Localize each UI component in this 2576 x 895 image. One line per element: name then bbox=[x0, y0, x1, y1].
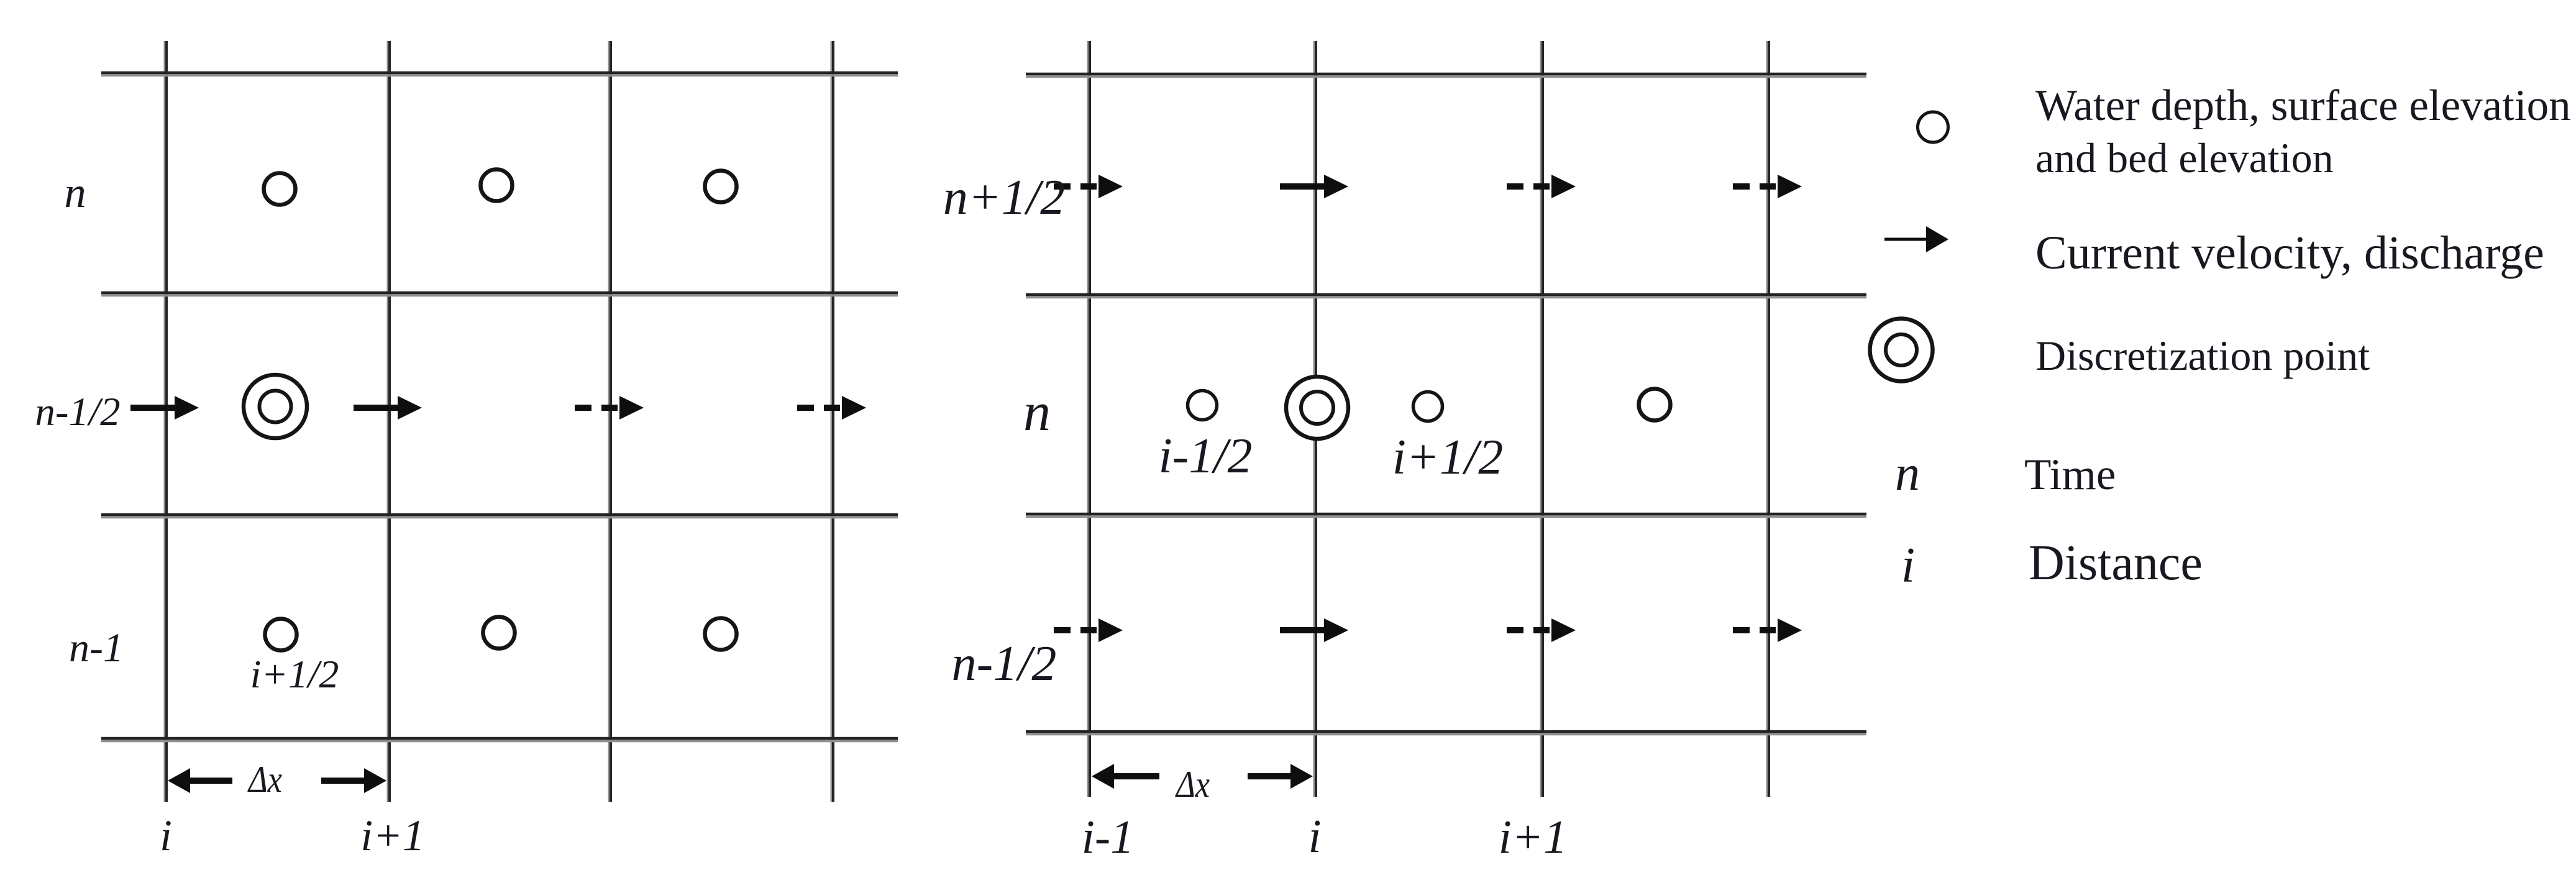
svg-text:i: i bbox=[1901, 538, 1915, 593]
svg-text:Water depth, surface elevation: Water depth, surface elevation bbox=[2035, 81, 2571, 130]
svg-text:n: n bbox=[65, 169, 86, 217]
svg-text:Distance: Distance bbox=[2029, 536, 2203, 590]
svg-text:i+1/2: i+1/2 bbox=[250, 652, 339, 696]
svg-text:i-1/2: i-1/2 bbox=[1158, 429, 1252, 484]
svg-text:i: i bbox=[1308, 810, 1321, 863]
svg-text:n-1/2: n-1/2 bbox=[35, 390, 120, 434]
svg-text:i+1: i+1 bbox=[360, 812, 424, 860]
svg-text:i+1/2: i+1/2 bbox=[1392, 430, 1503, 485]
svg-text:n-1/2: n-1/2 bbox=[952, 636, 1057, 691]
svg-text:n-1: n-1 bbox=[69, 625, 124, 671]
svg-text:i+1: i+1 bbox=[1499, 811, 1567, 863]
svg-text:Discretization point: Discretization point bbox=[2035, 332, 2370, 379]
svg-text:Current velocity, discharge: Current velocity, discharge bbox=[2035, 227, 2544, 279]
svg-text:i-1: i-1 bbox=[1082, 811, 1134, 863]
svg-text:and bed elevation: and bed elevation bbox=[2035, 134, 2334, 181]
svg-text:Δx: Δx bbox=[1175, 764, 1210, 805]
svg-text:i: i bbox=[160, 812, 172, 860]
svg-text:Time: Time bbox=[2024, 451, 2116, 499]
svg-text:n+1/2: n+1/2 bbox=[943, 170, 1065, 225]
svg-text:n: n bbox=[1023, 382, 1051, 443]
svg-text:Δx: Δx bbox=[247, 759, 282, 800]
svg-text:n: n bbox=[1895, 446, 1920, 501]
